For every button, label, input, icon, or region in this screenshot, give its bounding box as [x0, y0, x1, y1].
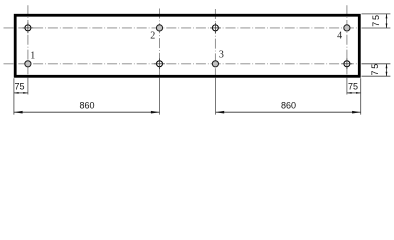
dimension 75 bottom-right vertical [370, 64, 387, 77]
svg-text:75: 75 [348, 81, 358, 91]
svg-text:860: 860 [79, 101, 94, 111]
svg-text:4: 4 [337, 31, 342, 42]
center line col1 [27, 5, 29, 77]
dimension 860 bottom-right [216, 101, 361, 114]
label hole 4 [337, 31, 342, 42]
center line col2 [159, 9, 161, 78]
center line row top [4, 27, 359, 29]
hole 3 (bottom col3, filled) [212, 61, 218, 67]
dimension 75 bottom-right [347, 81, 361, 94]
extension line plate top edge (right) [362, 13, 391, 15]
dimension 860 bottom-left [14, 101, 160, 114]
plate outline [15, 15, 359, 76]
center line row bottom [4, 63, 359, 65]
open hole top col3 [210, 23, 221, 34]
svg-text:5: 5 [370, 64, 380, 69]
svg-text:5: 5 [371, 15, 381, 20]
extension line col4 (below) [346, 78, 348, 95]
hole 2 (top col2, filled) [156, 25, 162, 31]
svg-text:7: 7 [370, 70, 380, 75]
svg-text:7: 7 [371, 22, 381, 27]
hole 1 (bottom col1, filled) [25, 61, 31, 67]
svg-text:75: 75 [14, 81, 24, 91]
extension line plate left edge (below) [13, 78, 15, 114]
extension line row bottom (right) [362, 63, 391, 65]
svg-text:860: 860 [281, 101, 296, 111]
extension line col3 (below) [215, 78, 217, 115]
dimension 75 top-right vertical [371, 14, 387, 28]
extension line col1 (below) [27, 78, 29, 95]
svg-text:3: 3 [219, 49, 224, 60]
dimension 75 bottom-left [14, 81, 28, 94]
hole 4 (top col4, filled) [344, 25, 350, 31]
extension line plate right edge (below) [360, 78, 362, 114]
label hole 1 [30, 50, 35, 61]
extension line row top (right) [362, 27, 391, 29]
svg-text:1: 1 [30, 50, 35, 61]
extension line col2 (below) [159, 78, 161, 115]
svg-text:2: 2 [150, 31, 155, 42]
extension line plate bottom edge (right) [362, 75, 391, 77]
label hole 3 [219, 49, 224, 60]
open hole top col1 [23, 23, 34, 34]
center line col4 [346, 5, 348, 77]
open hole bottom col2 [154, 59, 165, 70]
open hole bottom col4 [342, 59, 353, 70]
center line col3 [214, 9, 216, 78]
label hole 2 [150, 31, 155, 42]
